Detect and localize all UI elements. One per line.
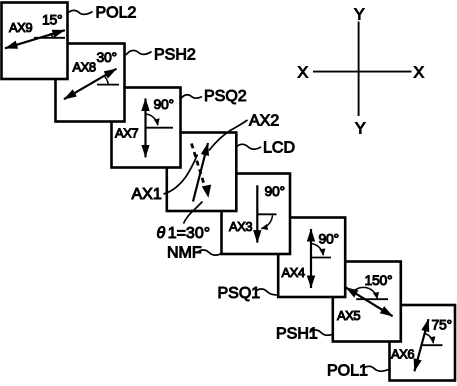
svg-text:30°: 30° [97, 49, 117, 65]
svg-text:15°: 15° [42, 12, 62, 28]
svg-text:AX9: AX9 [9, 20, 32, 35]
svg-text:AX8: AX8 [73, 60, 96, 75]
svg-text:PSH1: PSH1 [276, 325, 318, 342]
svg-text:AX3: AX3 [229, 219, 252, 234]
svg-text:LCD: LCD [263, 139, 295, 156]
svg-text:X: X [414, 65, 425, 82]
svg-text:AX5: AX5 [337, 308, 360, 323]
svg-text:AX6: AX6 [391, 347, 414, 362]
svg-text:NMF: NMF [167, 245, 202, 262]
svg-text:Y: Y [355, 121, 366, 138]
svg-text:AX4: AX4 [282, 265, 305, 280]
svg-text:POL2: POL2 [96, 5, 137, 22]
svg-text:90°: 90° [154, 96, 174, 112]
svg-text:X: X [298, 65, 309, 82]
svg-text:PSH2: PSH2 [154, 47, 196, 64]
svg-text:θ1=30°: θ1=30° [157, 225, 211, 242]
svg-text:AX1: AX1 [132, 186, 162, 203]
svg-text:Y: Y [354, 6, 365, 23]
svg-text:90°: 90° [319, 231, 339, 247]
svg-text:AX7: AX7 [115, 126, 138, 141]
svg-text:PSQ2: PSQ2 [204, 88, 247, 105]
svg-text:90°: 90° [265, 183, 285, 199]
svg-text:150°: 150° [365, 272, 393, 288]
svg-text:AX2: AX2 [249, 112, 279, 129]
svg-text:POL1: POL1 [327, 363, 368, 380]
svg-text:75°: 75° [432, 317, 452, 333]
svg-text:PSQ1: PSQ1 [218, 285, 261, 302]
